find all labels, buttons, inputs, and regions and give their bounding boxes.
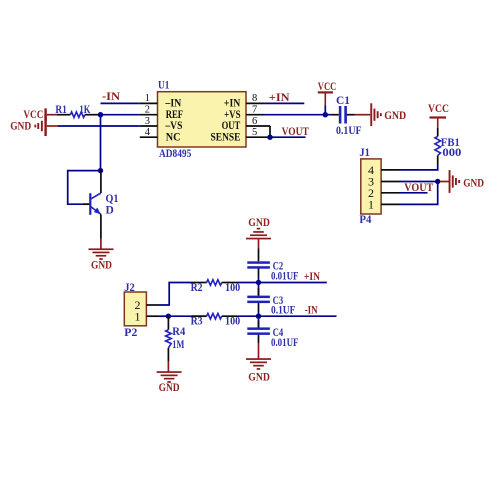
wire U1 pin8 to +IN label	[264, 102, 304, 104]
wire J2 pin2 up to R2 line	[159, 283, 192, 306]
svg-text:100: 100	[225, 316, 240, 328]
wire node to GND port	[440, 181, 449, 183]
svg-text:1M: 1M	[172, 339, 184, 351]
svg-text:AD8495: AD8495	[159, 148, 191, 160]
wire R2 to C2/C3 node	[237, 282, 259, 284]
svg-text:C1: C1	[336, 95, 350, 107]
pin 5 SENSE stub	[246, 136, 270, 138]
svg-text:GND: GND	[384, 110, 406, 122]
svg-text:1: 1	[145, 93, 150, 104]
svg-text:VOUT: VOUT	[404, 182, 433, 194]
svg-text:1: 1	[135, 309, 141, 323]
wire GND port to U1 pin3 (-VS)	[58, 125, 140, 127]
svg-text:1K: 1K	[79, 104, 90, 116]
svg-text:GND: GND	[463, 177, 484, 189]
svg-text:VOUT: VOUT	[282, 126, 309, 138]
resistor R2	[192, 280, 238, 286]
connector J2 body	[124, 292, 146, 326]
power port GND (sideways, right of J1)	[449, 170, 484, 193]
svg-text:-IN: -IN	[102, 91, 121, 103]
wire base-collector loop	[68, 171, 101, 205]
wire J1 pin2 VOUT	[399, 192, 428, 194]
pin 8 +IN stub	[246, 102, 264, 104]
svg-text:0.01UF: 0.01UF	[271, 270, 299, 282]
wire J2 pin1 to node	[159, 315, 169, 317]
svg-text:+IN: +IN	[269, 92, 291, 104]
svg-text:R1: R1	[55, 104, 67, 116]
wire to VOUT label	[270, 136, 306, 138]
power port VCC above +VS	[318, 81, 337, 114]
wire FB1 to J1 pin4	[399, 164, 438, 170]
svg-text:0.01UF: 0.01UF	[271, 337, 299, 349]
J1 pin 4 stub	[381, 169, 399, 171]
svg-text:GND: GND	[91, 260, 112, 272]
pin 7 +VS stub	[246, 114, 264, 116]
junction node +IN	[256, 280, 261, 285]
op-amp U1 body	[158, 92, 247, 147]
svg-text:0.1UF: 0.1UF	[336, 125, 362, 137]
pin 1 -IN stub	[140, 102, 158, 104]
capacitor C3	[247, 283, 270, 312]
svg-text:100: 100	[225, 282, 240, 294]
svg-text:5: 5	[252, 127, 257, 138]
svg-text:2: 2	[145, 105, 150, 116]
wire node down to Q1 collector	[100, 115, 102, 171]
svg-text:Q1: Q1	[106, 193, 119, 205]
J1 pin 3 stub	[381, 181, 399, 183]
wire R3 to C3/C4 node	[237, 315, 259, 317]
svg-text:U1: U1	[158, 80, 170, 92]
J2 pin 1 stub	[146, 315, 158, 317]
wire -IN net	[259, 315, 337, 317]
pin 4 NC stub	[140, 136, 158, 138]
junction node at +VS/C1	[323, 112, 328, 117]
transistor Q1	[83, 171, 101, 239]
svg-text:J1: J1	[359, 147, 370, 159]
svg-text:GND: GND	[248, 217, 270, 229]
svg-text:SENSE: SENSE	[211, 131, 241, 143]
ground under Q1	[89, 239, 114, 272]
wire OUT/SENSE tie	[269, 126, 271, 137]
svg-text:P4: P4	[359, 214, 371, 226]
resistor R4	[166, 316, 172, 361]
svg-text:GND: GND	[10, 120, 31, 132]
svg-text:4: 4	[145, 127, 151, 138]
pin 6 OUT stub	[246, 125, 270, 127]
capacitor C4	[247, 316, 270, 343]
svg-text:GND: GND	[159, 382, 180, 394]
svg-text:7: 7	[252, 105, 257, 116]
power port VCC above FB1	[428, 103, 449, 128]
svg-text:NC: NC	[166, 131, 181, 143]
svg-text:D: D	[106, 204, 114, 216]
svg-text:-IN: -IN	[305, 305, 319, 317]
wire J1 pin1 up to GND node	[399, 182, 438, 205]
svg-text:–VS: –VS	[165, 120, 183, 132]
svg-text:VCC: VCC	[428, 103, 449, 115]
capacitor C1	[331, 106, 355, 124]
junction node -IN	[256, 314, 261, 319]
wire J1 pin3 to GND node	[399, 181, 438, 183]
svg-text:OUT: OUT	[222, 120, 241, 132]
wire C3 to -IN node	[258, 311, 260, 316]
wire -IN net to U1 pin1	[101, 102, 140, 104]
ground at bottom of column	[246, 343, 271, 384]
svg-text:+VS: +VS	[224, 109, 241, 121]
svg-text:GND: GND	[248, 372, 270, 384]
J2 pin 2 stub	[146, 304, 158, 306]
wire C2 to +IN node	[258, 277, 260, 283]
ferrite bead FB1	[435, 128, 441, 164]
svg-text:3: 3	[145, 116, 150, 127]
J1 pin 2 stub	[381, 192, 399, 194]
svg-text:J2: J2	[124, 282, 135, 294]
svg-text:R3: R3	[191, 316, 203, 328]
power port VCC (bar style, left)	[23, 108, 57, 121]
junction node at R1/REF	[98, 112, 103, 117]
svg-text:6: 6	[252, 116, 257, 127]
svg-text:R2: R2	[191, 282, 203, 294]
resistor R1	[57, 112, 101, 118]
svg-text:+IN: +IN	[224, 98, 241, 110]
junction node J2 pin1/R3/R4	[166, 314, 171, 319]
J1 pin 1 stub	[381, 203, 399, 205]
svg-text:–IN: –IN	[165, 98, 182, 110]
capacitor C2	[247, 249, 270, 277]
wire node to U1 pin2 REF	[101, 114, 140, 116]
resistor R3	[168, 313, 237, 319]
power port GND (sideways, right of C1)	[370, 103, 406, 126]
connector J1 body	[361, 159, 381, 214]
wire C1 to GND port	[355, 114, 371, 116]
svg-text:VCC: VCC	[23, 109, 43, 121]
pin 2 REF stub	[140, 114, 158, 116]
power port GND (sideways, left)	[10, 115, 58, 137]
wire +IN net	[259, 282, 327, 284]
svg-text:VCC: VCC	[318, 81, 337, 93]
junction node at Q1 collector/base loop	[98, 168, 103, 173]
svg-text:1: 1	[368, 198, 374, 212]
svg-text:R4: R4	[172, 326, 185, 338]
junction node J1 pin3	[435, 179, 440, 184]
svg-text:0.1UF: 0.1UF	[271, 305, 295, 317]
ground under R4	[157, 361, 182, 394]
svg-text:REF: REF	[166, 109, 183, 121]
wire U1 pin7 (+VS) to C1	[264, 114, 331, 116]
pin 3 -VS stub	[140, 125, 158, 127]
svg-text:8: 8	[252, 93, 257, 104]
svg-text:+IN: +IN	[304, 271, 321, 283]
svg-text:000: 000	[442, 147, 461, 159]
svg-text:P2: P2	[124, 327, 137, 339]
junction node OUT/SENSE	[267, 135, 272, 140]
power port GND (inverted, top of column)	[246, 217, 271, 249]
